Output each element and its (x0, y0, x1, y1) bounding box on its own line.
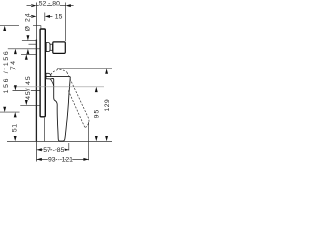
cartridge head (53, 42, 66, 54)
dim 51 line + arrows (14, 125, 17, 128)
phantom handle front edge (dashed) (67, 72, 89, 127)
dim Ø24 lower up arrow (26, 49, 29, 55)
handle crease line (50, 79, 54, 87)
svg-text:51: 51 (11, 123, 18, 132)
dim 95 line + arrows (95, 113, 98, 116)
dim 156/156 line + arrows (3, 68, 6, 71)
extension below escutcheon (44, 118, 46, 142)
svg-text:45/ 45: 45/ 45 (25, 75, 32, 99)
dim 52-80 right outside arrow (66, 4, 74, 7)
lever handle (closed position, solid) (46, 76, 70, 141)
pipe top line behind wall (ref for Ø24) (22, 40, 37, 42)
escutcheon plate (side view) (40, 29, 45, 117)
dim 15 right outside arrow (45, 15, 53, 18)
cartridge neck (50, 44, 53, 50)
svg-text:129: 129 (104, 99, 111, 112)
svg-text:15: 15 (55, 14, 63, 21)
svg-text:74: 74 (10, 59, 17, 70)
pipe middle line behind wall (29, 43, 37, 45)
cartridge sleeve on escutcheon (46, 43, 50, 52)
extension line handle projection (for dim 57-85) (68, 143, 70, 151)
dim 45/45 line + arrows (25, 79, 28, 82)
svg-text:Ø 24: Ø 24 (25, 12, 32, 31)
extension line cartridge tip (for dim 52-80) (65, 3, 67, 42)
ref line between 156/156 and 51 (0, 111, 20, 113)
svg-text:95: 95 (93, 109, 100, 119)
dim 129 line + arrows (105, 104, 108, 107)
dim Ø24 leader down arrow (26, 35, 29, 41)
dim 52-80 line (37, 4, 66, 7)
dim 93-121 line + inside arrows (37, 158, 89, 161)
bottom ref line for dim 45/45 (20, 104, 39, 106)
dim 74 line + arrows (14, 68, 17, 71)
svg-text:156 / 156: 156 / 156 (3, 50, 10, 94)
dim 15 left outside arrow (27, 15, 37, 18)
extension line phantom handle projection (for dim 93-121) (88, 122, 90, 160)
phantom handle back edge (dashed) (68, 91, 85, 128)
extension line escutcheon front (for dim 15) (44, 13, 46, 22)
bottom reference line (handle tip level) (7, 141, 112, 143)
dim 57-85 line + inside arrows (37, 148, 69, 151)
svg-text:93 - 121: 93 - 121 (48, 157, 73, 164)
grey centre line (ref for dim 95) (14, 86, 105, 88)
handle hub bump (46, 73, 51, 76)
svg-text:57 - 85: 57 - 85 (43, 147, 64, 154)
svg-text:52 - 80: 52 - 80 (39, 0, 60, 7)
top ref line for dim 45/45 (21, 53, 37, 55)
lower pipe line / top ref for dim 74 (8, 48, 40, 50)
phantom handle top arc (open position, dashed) (51, 69, 67, 74)
bottom ref line for dim 74 (13, 90, 40, 92)
top reference line for dim 156/156 (0, 25, 19, 27)
dim 52-80 left outside arrow (27, 4, 37, 7)
wall extension line (finished wall surface) (36, 3, 38, 162)
grey top line phantom handle (ref for dim 129) (57, 67, 112, 69)
